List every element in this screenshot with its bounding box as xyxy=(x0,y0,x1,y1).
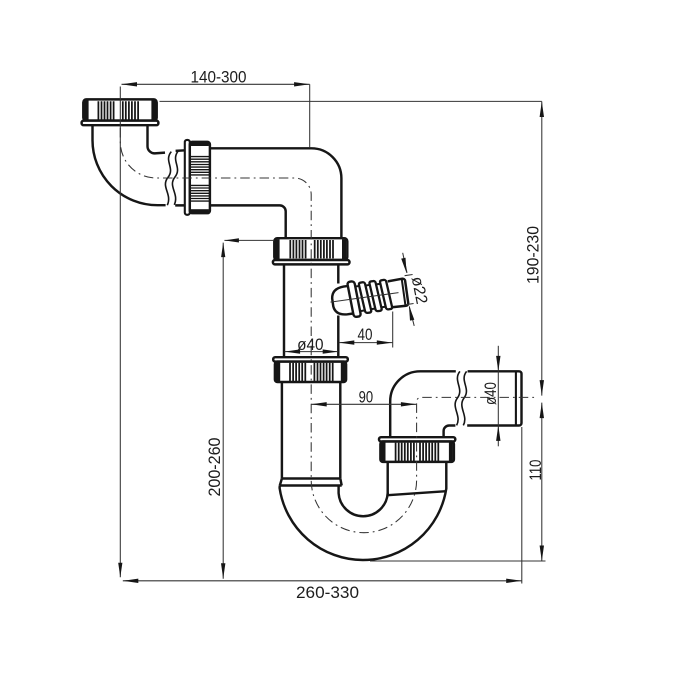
barb ridge 3 xyxy=(380,280,393,310)
spout centerline xyxy=(331,293,399,303)
extension line from inlet nut centre (long, left) xyxy=(119,87,121,578)
extension line top dim right (pipe centre) xyxy=(309,84,311,147)
extension line from outlet end down xyxy=(521,427,523,584)
barb ridge 2 xyxy=(369,281,382,312)
svg-text:260-330: 260-330 xyxy=(296,584,359,602)
svg-text:40: 40 xyxy=(358,326,373,344)
outlet nut N5 flange (top) xyxy=(379,437,455,441)
inlet nut N1 flange xyxy=(82,121,159,126)
U-bend socket seam (left) xyxy=(280,479,342,486)
dimension 190-230 (right vertical) xyxy=(541,102,543,396)
inlet nut N1 body (knurled, vertical axis) xyxy=(83,99,156,120)
dimension 40 (spout) + extension xyxy=(339,312,393,348)
extension line under U-bend xyxy=(370,560,546,562)
dimension 110 (right lower vertical) xyxy=(541,403,543,561)
elbow E1 outline (inlet elbow) xyxy=(92,125,165,205)
U-bend right socket lip xyxy=(388,462,447,496)
washing-machine spout (hose barb connector) xyxy=(330,274,409,320)
riser pipe P4 and outlet elbow E3 outline xyxy=(390,371,456,437)
centerline main run (dash-dot through elbows, vertical pipe, U-bend, outlet) xyxy=(120,128,536,533)
break squiggle S1 (two wavy lines) xyxy=(165,152,171,206)
dimension 260-330 (bottom) xyxy=(123,580,522,582)
extension line from nut N1 top to right dim xyxy=(160,100,542,102)
dimension d22 (spout tip) with slanted extensions xyxy=(403,253,415,326)
vertical pipe P3 lower section xyxy=(282,382,340,478)
outlet end rim line xyxy=(515,372,517,426)
union nut N4 body (knurled) xyxy=(275,362,346,382)
outlet nut N5 body (knurled) xyxy=(380,442,454,462)
union nut N4 flange (top) xyxy=(273,357,348,361)
dimension 140-300 (top) xyxy=(122,83,310,85)
break squiggle S2 on outlet pipe xyxy=(455,371,460,425)
svg-text:140-300: 140-300 xyxy=(191,69,247,87)
pipe P2 and elbow E2 outline xyxy=(210,148,342,238)
pipe P1 wall segments after break xyxy=(175,150,185,205)
svg-text:ø40: ø40 xyxy=(482,382,500,405)
union nut N2 body (knurled, horizontal axis) xyxy=(190,142,210,213)
spout neck lines between collar and barbs xyxy=(356,283,386,311)
outlet pipe P5 wall after break xyxy=(467,371,521,425)
spout tip cylinder xyxy=(388,278,409,307)
dimension 200-260 (left vertical) xyxy=(223,240,274,578)
barb ridge 1 xyxy=(358,282,371,313)
union nut N2 flange (vertical washer) xyxy=(185,140,190,215)
svg-text:ø40: ø40 xyxy=(297,336,323,354)
dimension d40 (outlet pipe) vertical xyxy=(497,346,499,447)
union nut N3 body (knurled, on vertical pipe below elbow) xyxy=(274,238,347,260)
union nut N3 flange xyxy=(273,260,350,264)
dimension 90 (horizontal, mid) xyxy=(311,403,416,405)
vertical pipe P3 upper section xyxy=(284,264,338,357)
svg-text:90: 90 xyxy=(359,388,374,406)
spout collar disc xyxy=(347,281,361,317)
U-bend outer wall xyxy=(280,462,447,560)
svg-text:110: 110 xyxy=(527,460,545,481)
U-bend inner wall xyxy=(339,486,388,517)
dimension d40 (vertical pipe bore) xyxy=(285,351,339,353)
svg-text:200-260: 200-260 xyxy=(206,438,224,497)
svg-text:190-230: 190-230 xyxy=(524,226,542,284)
